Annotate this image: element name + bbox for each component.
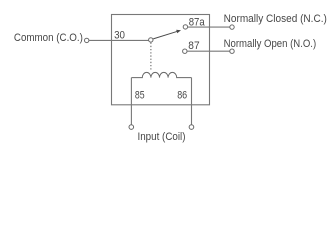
coil L1 <box>131 72 191 77</box>
pin 87 node <box>183 49 187 53</box>
actuation dotted link <box>150 43 152 70</box>
svg-text:30: 30 <box>114 30 125 42</box>
svg-text:87: 87 <box>188 40 199 52</box>
relay body K1 <box>112 15 210 105</box>
terminal N.O. <box>230 49 234 53</box>
svg-text:87a: 87a <box>189 16 206 28</box>
svg-text:Normally Open (N.O.): Normally Open (N.O.) <box>224 38 317 50</box>
svg-text:86: 86 <box>177 90 187 102</box>
terminal coil B <box>189 125 194 130</box>
switch pivot node <box>149 38 153 42</box>
pin 86 lead wire <box>191 78 193 125</box>
switch arm arrowhead <box>176 30 181 33</box>
pin 87a node <box>183 25 187 29</box>
svg-text:Normally Closed (N.C.): Normally Closed (N.C.) <box>224 13 327 25</box>
wire 87a to N.C. terminal <box>188 26 230 28</box>
pin 85 lead wire <box>130 78 132 125</box>
switch arm to 87a <box>153 31 177 39</box>
svg-text:85: 85 <box>135 90 145 102</box>
svg-text:Common (C.O.): Common (C.O.) <box>14 32 83 44</box>
svg-text:Input (Coil): Input (Coil) <box>138 131 186 143</box>
wire 87 to N.O. terminal <box>187 50 230 52</box>
terminal common <box>85 38 89 42</box>
wire common to pin 30 <box>89 39 149 41</box>
terminal N.C. <box>230 25 234 29</box>
terminal coil A <box>129 125 134 130</box>
